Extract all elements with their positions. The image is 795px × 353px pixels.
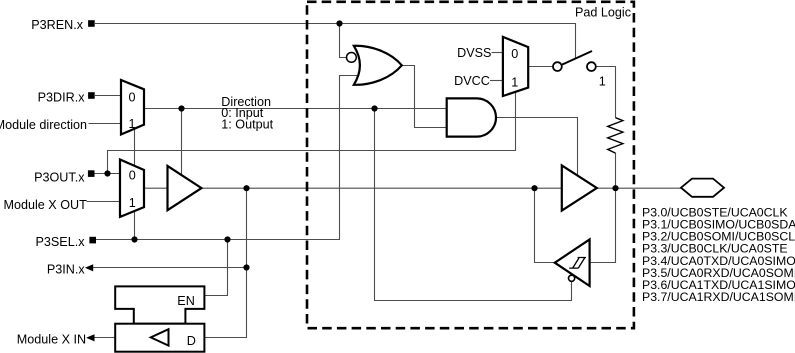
wire Direction to Schmitt enable bubble (375, 109, 572, 301)
D latch triangle (151, 329, 169, 345)
junction dot pad node (612, 185, 618, 191)
terminal square P3SEL.x (89, 237, 96, 244)
mux M3 DVSS/DVCC (503, 37, 528, 96)
terminal square P3REN.x (88, 20, 95, 27)
svg-text:Module direction: Module direction (0, 118, 87, 132)
junction dot Direction to U1 enable (178, 105, 184, 111)
Schmitt trigger U5 input buffer (555, 239, 590, 286)
wire Module direction stub (89, 123, 122, 125)
wire DVSS stub (492, 52, 504, 54)
wire EN latch enable from P3SEL (205, 240, 228, 296)
wire mux select pass-through upper (134, 129, 136, 166)
svg-text:EN: EN (177, 294, 195, 308)
wire Direction net (DIR mux output to AND input) (144, 108, 447, 110)
wire DVSS/DVCC mux output to switch (528, 66, 553, 68)
svg-text:P3OUT.x: P3OUT.x (34, 170, 85, 184)
wire input net vertical to D latch (205, 188, 247, 337)
svg-text:P3REN.x: P3REN.x (31, 18, 83, 32)
wire DVCC stub (490, 80, 503, 82)
buffer U4 pad driver (562, 165, 597, 210)
wire P3REN.x to switch control (95, 24, 576, 59)
junction dot Schmitt output on net (531, 185, 537, 191)
wire resistor bottom to pad net (615, 153, 617, 188)
svg-text:P3SEL.x: P3SEL.x (35, 235, 85, 249)
svg-text:1: 1 (128, 117, 135, 131)
wire switch to resistor top (596, 67, 616, 118)
inverter bubble on OR gate input (347, 53, 357, 63)
junction dot P3SEL to EN (224, 236, 230, 242)
wire P3OUT.x stub (95, 173, 122, 175)
hysteresis symbol (569, 258, 586, 269)
svg-text:P3DIR.x: P3DIR.x (38, 91, 86, 105)
wire Schmitt output to input net (535, 188, 555, 262)
junction dot P3SEL to mux selects (131, 236, 137, 242)
mux M1 P3DIR/Module direction (121, 80, 144, 135)
wire Module X IN from D latch (95, 337, 116, 339)
svg-text:0: 0 (511, 47, 518, 61)
OR gate U2 (354, 46, 402, 85)
Schmitt enable bubble (569, 275, 575, 281)
pin hexagon (681, 179, 724, 197)
wire AND output to pad driver enable (492, 118, 577, 176)
arrow P3IN.x (85, 264, 93, 271)
wire pad net to pin (597, 187, 681, 189)
wire P3OUT to DVSS/DVCC mux select (108, 92, 516, 174)
svg-text:0: 0 (128, 90, 135, 104)
svg-text:1: 1 (129, 196, 136, 210)
wire OR gate output to AND input (402, 66, 447, 128)
svg-text:Module X IN: Module X IN (17, 333, 86, 347)
junction dot P3REN branch (336, 20, 342, 26)
wire P3SEL.x to OR input 2 (96, 76, 359, 240)
svg-text:P3IN.x: P3IN.x (47, 262, 85, 276)
wire P3IN.x (93, 267, 247, 269)
buffer U1 (output path driver) (168, 166, 202, 210)
junction dot output net to input path (243, 185, 249, 191)
svg-text:Pad Logic: Pad Logic (575, 5, 631, 19)
svg-text:D: D (187, 334, 196, 348)
switch S1 left contact (553, 62, 562, 71)
Pad Logic dashed boundary (307, 2, 634, 328)
mux M2 P3OUT/Module X OUT (120, 160, 144, 217)
switch S1 blade (562, 51, 593, 65)
AND gate U3 (447, 98, 496, 136)
junction dot Direction to Schmitt enable (371, 105, 377, 111)
wire main output net to pad driver (202, 187, 562, 189)
wire P3REN.x branch to OR bubble input (340, 24, 348, 58)
svg-text:1: 1 (511, 75, 518, 89)
svg-text:DVCC: DVCC (454, 74, 490, 88)
wire P3DIR.x stub (95, 95, 121, 97)
arrow Module X IN (86, 334, 94, 341)
svg-text:P3.7/UCA1RXD/UCA1SOMI: P3.7/UCA1RXD/UCA1SOMI (642, 290, 795, 304)
svg-text:1: Output: 1: Output (221, 117, 273, 131)
terminal square P3OUT.x (88, 170, 95, 177)
wire buffer U1 enable from Direction (181, 109, 183, 176)
junction dot P3OUT branch (104, 170, 110, 176)
svg-text:0: 0 (129, 169, 136, 183)
junction dot P3IN tap (243, 264, 249, 270)
svg-text:Module X OUT: Module X OUT (4, 198, 88, 212)
wire pad to Schmitt input (590, 188, 616, 262)
wire OUT mux output (144, 187, 168, 189)
switch S1 right contact (587, 62, 596, 71)
wire mux select pass-through lower (134, 211, 136, 240)
wire Module X OUT stub (87, 201, 122, 203)
D latch box (115, 324, 204, 352)
EN latch box (115, 286, 204, 323)
resistor R1 (608, 118, 623, 153)
svg-text:DVSS: DVSS (457, 46, 491, 60)
svg-text:1: 1 (599, 75, 606, 89)
terminal square P3DIR.x (88, 92, 95, 99)
